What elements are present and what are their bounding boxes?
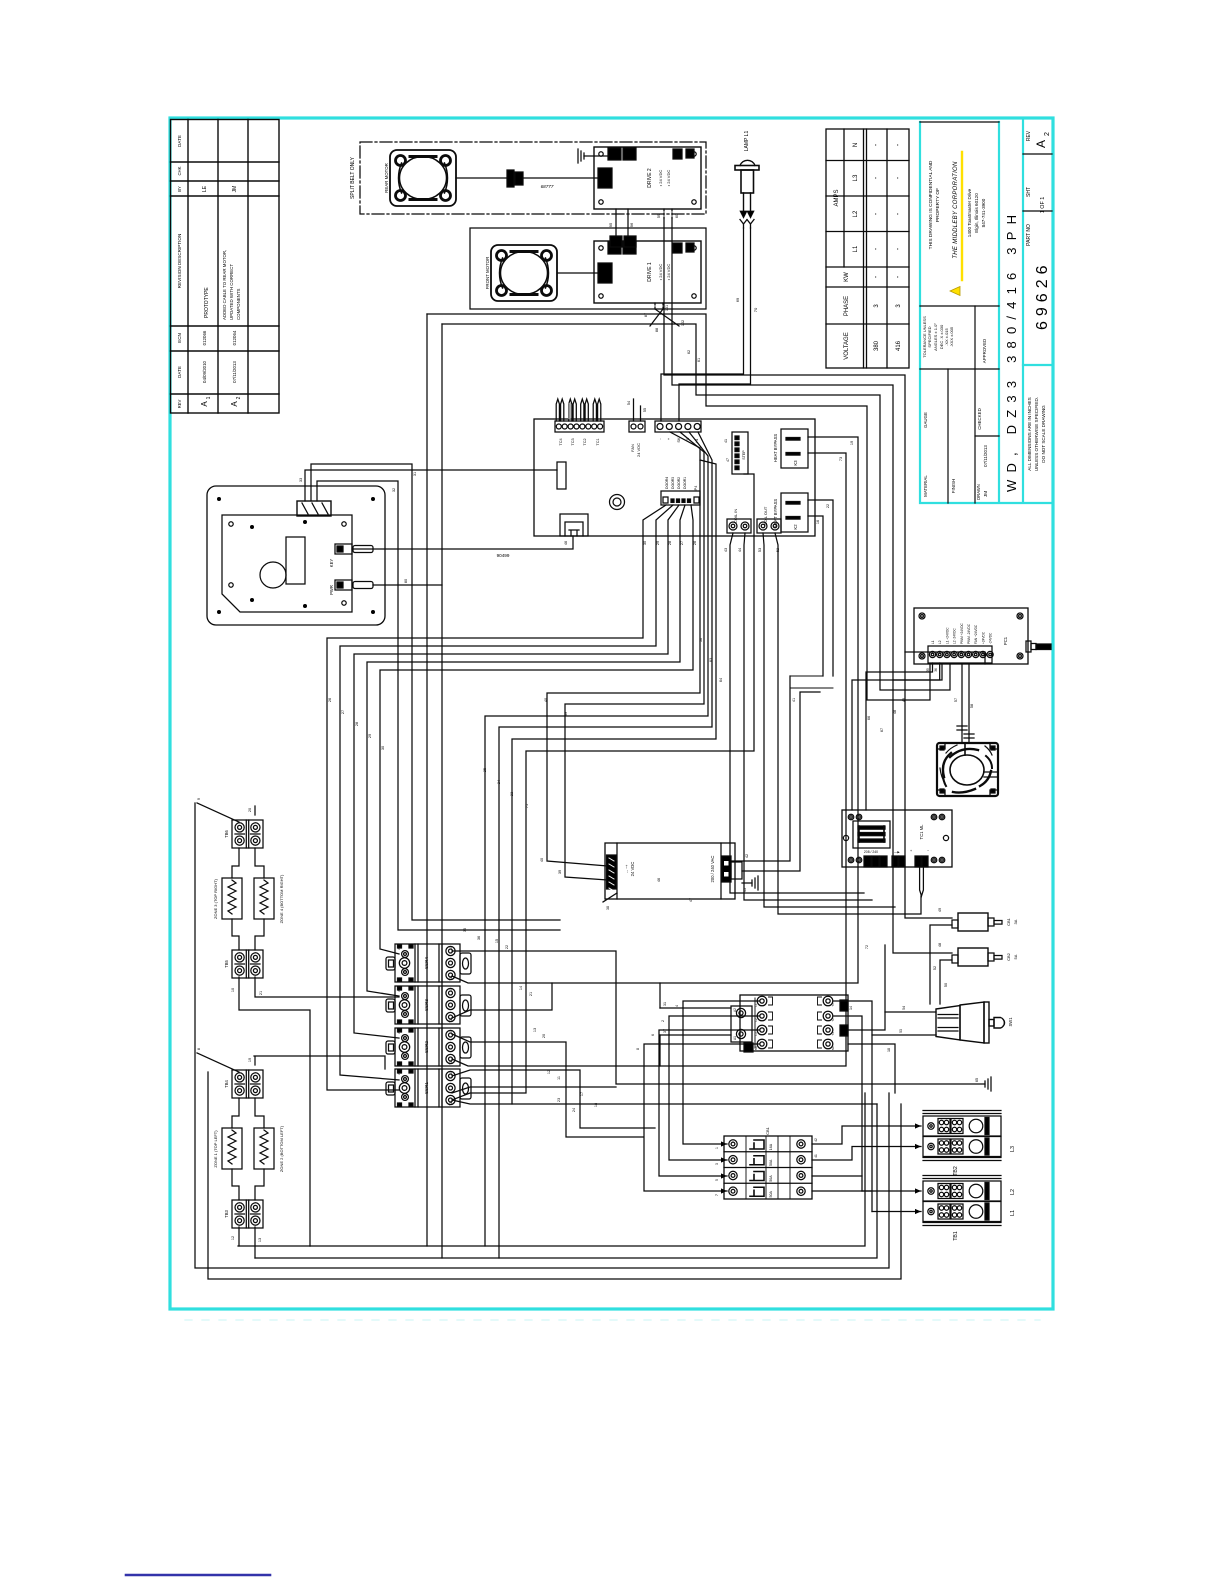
svg-text:1 OF 1: 1 OF 1 xyxy=(1040,197,1046,213)
svg-text:48: 48 xyxy=(893,710,897,714)
svg-text:PWR: PWR xyxy=(329,585,334,595)
svg-text:11: 11 xyxy=(557,1076,561,1080)
svg-text:71: 71 xyxy=(525,804,529,808)
svg-text:9: 9 xyxy=(197,798,201,800)
svg-text:65: 65 xyxy=(975,1078,979,1082)
svg-text:24: 24 xyxy=(572,1108,576,1112)
svg-text:DRIVE 1: DRIVE 1 xyxy=(647,262,653,282)
svg-text:ADDED CABLE TO REAR MOTOR,: ADDED CABLE TO REAR MOTOR, xyxy=(222,250,227,320)
svg-text:21: 21 xyxy=(259,991,263,995)
svg-text:07/11/2013: 07/11/2013 xyxy=(983,445,988,467)
svg-text:29: 29 xyxy=(368,734,372,738)
svg-text:CHECKED: CHECKED xyxy=(977,408,982,429)
svg-text:23: 23 xyxy=(510,792,514,796)
svg-text:PROPERTY OF: PROPERTY OF xyxy=(935,188,941,222)
svg-text:CB1: CB1 xyxy=(765,1126,770,1135)
drawing border frame xyxy=(170,118,1053,1309)
TB6 to heaters xyxy=(232,848,264,878)
svg-text:A1: A1 xyxy=(397,1019,401,1023)
svg-text:K2: K2 xyxy=(793,524,798,530)
svg-text:REVISION DESCRIPTION: REVISION DESCRIPTION xyxy=(177,234,182,289)
svg-text:07/11/2013: 07/11/2013 xyxy=(232,361,237,383)
svg-text:TC2: TC2 xyxy=(583,438,587,445)
svg-text:012066: 012066 xyxy=(202,330,207,345)
STEP connector xyxy=(732,432,748,474)
svg-text:50A: 50A xyxy=(769,1175,773,1182)
svg-text:43: 43 xyxy=(724,548,728,552)
svg-text:7: 7 xyxy=(715,1194,719,1196)
svg-text:PHASE: PHASE xyxy=(844,296,850,316)
svg-text:95: 95 xyxy=(608,222,613,227)
svg-text:P4: P4 xyxy=(694,486,698,491)
ground at drive 2 xyxy=(584,155,609,157)
svg-text:42: 42 xyxy=(814,1138,818,1142)
svg-text:ANGLES ± 1.0°: ANGLES ± 1.0° xyxy=(933,323,938,351)
title block xyxy=(920,118,1052,503)
drive 2 xyxy=(594,147,701,209)
svg-text:30: 30 xyxy=(643,541,647,545)
PC1 terminal jumpers xyxy=(852,663,940,810)
contactor coil wires xyxy=(660,1007,731,1009)
svg-text:+24VDC: +24VDC xyxy=(981,631,985,644)
svg-text:DRAWN: DRAWN xyxy=(976,484,981,500)
svg-text:PART NO: PART NO xyxy=(1026,224,1032,246)
svg-text:45: 45 xyxy=(743,888,747,892)
svg-text:A2: A2 xyxy=(397,1030,401,1034)
svg-text:DOOR2: DOOR2 xyxy=(677,477,681,489)
svg-text:88: 88 xyxy=(655,328,659,332)
svg-text:PROTOTYPE: PROTOTYPE xyxy=(204,287,210,318)
svg-text:TB6: TB6 xyxy=(224,829,229,837)
svg-text:24 VDC: 24 VDC xyxy=(636,443,641,457)
svg-text:24 VDC: 24 VDC xyxy=(630,862,635,877)
svg-text:A1: A1 xyxy=(397,1102,401,1106)
zone 1 heater (top left) xyxy=(222,1128,242,1169)
terminal block TB2 xyxy=(923,1111,1016,1176)
svg-text:3: 3 xyxy=(715,1163,719,1165)
svg-text:T3: T3 xyxy=(831,1032,835,1036)
TB5 out wires xyxy=(239,977,310,1246)
svg-text:WD, DZ33 380/416 3PH: WD, DZ33 380/416 3PH xyxy=(1004,208,1019,492)
svg-text:1: 1 xyxy=(206,396,212,399)
svg-text:6: 6 xyxy=(651,1034,655,1036)
breaker CB1 3A xyxy=(952,913,1002,931)
svg-text:T1: T1 xyxy=(831,1003,835,1007)
svg-text:A2: A2 xyxy=(397,988,401,992)
svg-text:L1: L1 xyxy=(449,1071,453,1075)
svg-text:3A: 3A xyxy=(1013,919,1018,924)
rear motor xyxy=(390,150,456,206)
front motor enclosure wire xyxy=(470,228,706,309)
svg-text:L1: L1 xyxy=(449,1030,453,1034)
svg-text:50A: 50A xyxy=(769,1190,773,1197)
main controller board xyxy=(534,419,815,536)
coil out terminal xyxy=(757,519,781,533)
svg-text:847-741-3900: 847-741-3900 xyxy=(981,198,986,227)
svg-text:56: 56 xyxy=(699,638,703,642)
svg-text:64: 64 xyxy=(719,678,723,682)
terminal block TB3 xyxy=(232,1200,263,1228)
svg-text:• 24 VDC: • 24 VDC xyxy=(666,170,671,187)
svg-text:44: 44 xyxy=(738,548,742,552)
svg-text:VOLTAGE: VOLTAGE xyxy=(844,332,850,359)
svg-text:35: 35 xyxy=(926,668,930,672)
svg-text:DATE: DATE xyxy=(177,135,182,147)
wires 95 96 drive2 to drive1 xyxy=(616,209,628,236)
board left connector xyxy=(557,462,566,489)
svg-text:TC1 ML: TC1 ML xyxy=(919,824,924,840)
display control unit xyxy=(207,486,385,625)
svg-text:SW1: SW1 xyxy=(1008,1017,1013,1027)
svg-text:38: 38 xyxy=(606,906,610,910)
svg-text:04/09/2010: 04/09/2010 xyxy=(202,360,207,383)
svg-text:24: 24 xyxy=(497,780,501,784)
zone12 wiring xyxy=(197,1053,239,1072)
svg-text:20: 20 xyxy=(542,1034,546,1038)
svg-text:UNLESS OTHERWISE SPECIFIED.: UNLESS OTHERWISE SPECIFIED. xyxy=(1034,397,1039,471)
svg-text:TC4: TC4 xyxy=(559,438,563,445)
svg-text:PWM -24VDC: PWM -24VDC xyxy=(967,623,971,644)
svg-text:REAR MOTOR: REAR MOTOR xyxy=(384,163,389,193)
svg-text:21: 21 xyxy=(529,992,533,996)
svg-text:10: 10 xyxy=(231,988,235,992)
svg-text:T1: T1 xyxy=(449,1019,453,1023)
svg-text:ZONE 4 (BOTTOM RIGHT): ZONE 4 (BOTTOM RIGHT) xyxy=(279,874,284,923)
svg-text:CHK: CHK xyxy=(177,166,182,175)
lamp wires 69 70 xyxy=(661,228,744,421)
svg-text:46: 46 xyxy=(657,878,661,882)
dimension note xyxy=(1027,397,1046,471)
TC1 ML thermocouple board xyxy=(842,810,952,896)
svg-text:AMPS: AMPS xyxy=(834,189,840,206)
svg-text:12: 12 xyxy=(547,1070,551,1074)
svg-text:A: A xyxy=(200,401,209,407)
svg-text:ECN: ECN xyxy=(177,333,182,343)
svg-text:FRONT MOTOR: FRONT MOTOR xyxy=(485,257,490,290)
svg-text:DOOR4: DOOR4 xyxy=(665,477,669,489)
relay K3 heat bypass xyxy=(781,429,808,468)
ssr feed staircase from left loops xyxy=(452,1034,643,1137)
svg-text:STEP: STEP xyxy=(742,450,746,460)
svg-text:HEAT BYPASS: HEAT BYPASS xyxy=(773,434,778,463)
svg-text:96: 96 xyxy=(629,222,634,227)
wire from STEP to SSR right mesh xyxy=(452,474,754,1100)
svg-text:REV: REV xyxy=(177,399,182,408)
svg-text:↔ −+: ↔ −+ xyxy=(625,865,629,874)
solid state relay SSR2 xyxy=(386,1028,471,1066)
breaker CB2 5A xyxy=(952,948,1002,966)
svg-text:L1: L1 xyxy=(449,988,453,992)
svg-text:.XXX ±.005: .XXX ±.005 xyxy=(949,326,954,347)
ps input wires 41 42 xyxy=(731,676,790,861)
svg-text:L1: L1 xyxy=(449,946,453,950)
svg-text:27: 27 xyxy=(680,541,684,545)
svg-text:67: 67 xyxy=(880,728,884,732)
svg-text:COIL OUT: COIL OUT xyxy=(763,506,768,525)
svg-text:4: 4 xyxy=(675,1005,679,1007)
svg-text:52: 52 xyxy=(776,548,780,552)
svg-text:32: 32 xyxy=(392,488,396,492)
svg-text:DOOR3: DOOR3 xyxy=(671,477,675,489)
svg-text:A2: A2 xyxy=(397,946,401,950)
svg-text:L2: L2 xyxy=(754,1018,758,1022)
svg-text:12: 12 xyxy=(231,1236,235,1240)
inter-drive connector xyxy=(610,236,622,247)
solid state relay SSR1 xyxy=(386,1069,471,1107)
svg-text:47: 47 xyxy=(726,458,730,462)
svg-text:22: 22 xyxy=(505,945,509,949)
fan terminal xyxy=(629,421,645,432)
terminal block TB5 xyxy=(232,950,263,978)
svg-text:N: N xyxy=(853,143,859,147)
svg-text:53: 53 xyxy=(758,548,762,552)
svg-text:L2: L2 xyxy=(853,210,859,217)
svg-text:L3: L3 xyxy=(754,1032,758,1036)
svg-text:380: 380 xyxy=(874,340,880,351)
K3 wires to SSR bus xyxy=(452,437,858,983)
svg-text:39: 39 xyxy=(558,870,562,874)
svg-text:22: 22 xyxy=(826,504,830,508)
revision table xyxy=(171,120,280,414)
svg-text:61: 61 xyxy=(697,358,701,362)
svg-text:KW: KW xyxy=(844,272,850,282)
contactor output wires xyxy=(834,1001,872,1212)
svg-text:DATE: DATE xyxy=(177,366,182,378)
svg-text:L3: L3 xyxy=(853,174,859,181)
svg-text:KEY: KEY xyxy=(329,559,334,568)
svg-text:ZONE 2 (BOTTOM LEFT): ZONE 2 (BOTTOM LEFT) xyxy=(279,1125,284,1172)
fan wires 54 55 xyxy=(634,399,641,421)
svg-text:L1: L1 xyxy=(931,640,935,644)
svg-text:L1: L1 xyxy=(853,245,859,252)
zone34 wiring xyxy=(197,803,239,822)
svg-text:73: 73 xyxy=(839,457,843,461)
svg-text:19: 19 xyxy=(248,1058,252,1062)
svg-text:36: 36 xyxy=(477,936,481,940)
svg-text:PWM +24VDC: PWM +24VDC xyxy=(960,622,964,644)
svg-text:72: 72 xyxy=(865,945,869,949)
svg-text:COMPONENTS: COMPONENTS xyxy=(236,288,241,320)
svg-text:36: 36 xyxy=(934,668,938,672)
svg-text:102: 102 xyxy=(681,320,685,326)
svg-text:L2 -24VDC: L2 -24VDC xyxy=(953,628,957,644)
P4 door connector xyxy=(661,491,700,505)
svg-text:BY: BY xyxy=(177,186,182,192)
PC1 power board xyxy=(914,608,1051,664)
svg-text:13: 13 xyxy=(258,1238,262,1242)
svg-text:26: 26 xyxy=(328,698,332,702)
svg-text:-24VDC: -24VDC xyxy=(989,632,993,644)
svg-text:• 24 VDC: • 24 VDC xyxy=(666,264,671,281)
svg-text:ALL DIMENSIONS ARE IN INCHES: ALL DIMENSIONS ARE IN INCHES xyxy=(1027,397,1032,470)
cb feed wires xyxy=(905,652,952,918)
svg-text:L1 +24VDC: L1 +24VDC xyxy=(945,627,949,644)
24VDC power supply xyxy=(605,843,742,899)
svg-text:66: 66 xyxy=(867,716,871,720)
svg-text:47: 47 xyxy=(689,898,693,902)
svg-text:+: + xyxy=(910,849,912,853)
terminal block TB6 xyxy=(232,820,263,848)
svg-text:SPLIT BELT ONLY: SPLIT BELT ONLY xyxy=(350,156,356,199)
svg-text:101: 101 xyxy=(665,305,669,311)
svg-text:DO NOT SCALE DRAWING: DO NOT SCALE DRAWING xyxy=(1041,405,1046,463)
svg-text:THIS DRAWING IS CONFIDENTIAL A: THIS DRAWING IS CONFIDENTIAL AND xyxy=(928,160,934,249)
drive2 output leads 59 60 xyxy=(664,209,672,218)
svg-text:L1: L1 xyxy=(1010,1210,1016,1216)
svg-text:012064: 012064 xyxy=(232,330,237,345)
svg-text:42: 42 xyxy=(745,854,749,858)
svg-text:REV: REV xyxy=(1026,130,1032,141)
power supply ground xyxy=(742,882,752,884)
relay K2 heat bypass xyxy=(781,493,808,532)
wire connector to drive 2 xyxy=(523,177,598,179)
svg-text:THE MIDDLEBY CORPORATION: THE MIDDLEBY CORPORATION xyxy=(953,161,959,259)
board mounting hole xyxy=(610,495,625,510)
voltage amps table xyxy=(826,129,909,368)
svg-text:18: 18 xyxy=(594,1103,598,1107)
svg-text:SPECIFIED: SPECIFIED xyxy=(927,326,932,347)
svg-text:58: 58 xyxy=(970,704,974,708)
svg-text:57: 57 xyxy=(954,698,958,702)
svg-text:TC3: TC3 xyxy=(571,438,575,445)
svg-text:90499: 90499 xyxy=(497,553,510,558)
solid state relay SSR3 xyxy=(386,986,471,1024)
svg-text:69626: 69626 xyxy=(1034,261,1051,331)
svg-text:8: 8 xyxy=(636,1048,640,1050)
breaker CB1 4-pole xyxy=(724,1126,812,1199)
svg-text:2: 2 xyxy=(1044,132,1051,136)
wire loop drive area to PC1 (outer) xyxy=(427,314,930,700)
svg-text:—▶: —▶ xyxy=(894,850,900,854)
svg-text:80: 80 xyxy=(404,579,408,583)
svg-text:T1: T1 xyxy=(449,977,453,981)
svg-text:40: 40 xyxy=(544,698,548,702)
split belt only enclosure xyxy=(360,142,706,214)
svg-text:25: 25 xyxy=(483,768,487,772)
thermocouple probe xyxy=(920,867,924,896)
contactor feed wires to CB1 xyxy=(683,1001,759,1144)
svg-text:41: 41 xyxy=(792,698,796,702)
svg-text:59: 59 xyxy=(657,214,661,218)
long verticals x427 x442 xyxy=(426,314,428,1246)
svg-text:49: 49 xyxy=(938,908,942,912)
svg-text:APPROVED: APPROVED xyxy=(982,339,987,363)
svg-text:CB1: CB1 xyxy=(1006,917,1011,926)
svg-text:2: 2 xyxy=(661,1020,665,1022)
svg-text:T1: T1 xyxy=(449,1102,453,1106)
solid state relay SSR4 xyxy=(386,944,471,982)
svg-text:19: 19 xyxy=(850,441,854,445)
svg-text:50A: 50A xyxy=(769,1159,773,1166)
zone 4 heater (bottom right) xyxy=(254,878,274,919)
svg-text:41: 41 xyxy=(814,1154,818,1158)
svg-text:208 / 240: 208 / 240 xyxy=(864,850,878,854)
terminal block TB4 xyxy=(232,1070,263,1098)
display top connector xyxy=(297,501,331,516)
svg-text:46: 46 xyxy=(564,541,568,545)
wire loop 4 xyxy=(672,218,942,680)
misc wire number labels xyxy=(463,638,906,1107)
board terminals xyxy=(864,856,871,867)
sw1 wires xyxy=(885,1011,936,1013)
svg-text:DRIVE 2: DRIVE 2 xyxy=(647,168,653,188)
svg-text:8: 8 xyxy=(197,1048,201,1050)
svg-text:62: 62 xyxy=(687,350,691,354)
svg-text:52: 52 xyxy=(933,966,937,970)
svg-text:DOOR1: DOOR1 xyxy=(683,477,687,489)
svg-text:39: 39 xyxy=(564,712,568,716)
svg-text:54: 54 xyxy=(627,401,631,405)
wires 26-30 board to SSR controls xyxy=(327,505,666,1090)
svg-text:31: 31 xyxy=(413,472,417,476)
footer blue line xyxy=(126,1574,270,1577)
svg-text:17: 17 xyxy=(580,1092,584,1096)
svg-text:20: 20 xyxy=(248,808,252,812)
svg-text:A2: A2 xyxy=(733,1008,737,1012)
motor cable connector xyxy=(507,170,514,187)
svg-text:1: 1 xyxy=(715,1147,719,1149)
svg-text:L3: L3 xyxy=(1010,1146,1016,1152)
zone 3 heater (top right) xyxy=(222,878,242,919)
svg-text:53: 53 xyxy=(899,1029,903,1033)
svg-text:15: 15 xyxy=(495,939,499,943)
wire bundle to power supply and lower left xyxy=(547,432,700,866)
svg-text:L2: L2 xyxy=(938,640,942,644)
svg-text:TB5: TB5 xyxy=(224,959,229,967)
svg-text:63: 63 xyxy=(709,658,713,662)
svg-text:14: 14 xyxy=(849,1006,853,1010)
svg-text:416: 416 xyxy=(896,340,902,351)
svg-text:MATERIAL: MATERIAL xyxy=(923,475,928,497)
key/pwr connectors xyxy=(335,544,352,554)
svg-text:ZONE 3 (TOP RIGHT): ZONE 3 (TOP RIGHT) xyxy=(213,878,218,919)
wire loop 3 (drive2 24vdc) xyxy=(664,218,985,664)
svg-text:60: 60 xyxy=(675,214,679,218)
svg-text:K3: K3 xyxy=(793,460,798,466)
svg-text:54: 54 xyxy=(902,1006,906,1010)
svg-text:16A: 16A xyxy=(769,1143,773,1150)
transformer xyxy=(853,821,890,848)
svg-text:30: 30 xyxy=(381,746,385,750)
svg-text:A1: A1 xyxy=(733,1036,737,1040)
svg-text:TB1: TB1 xyxy=(953,1231,959,1241)
drive 1 xyxy=(594,241,701,303)
svg-text:A1: A1 xyxy=(397,1061,401,1065)
svg-text:5A: 5A xyxy=(1013,954,1018,959)
wire front motor to drive 1 xyxy=(558,272,598,274)
terminal block TB1 xyxy=(923,1176,1016,1241)
svg-text:GAUGE: GAUGE xyxy=(923,412,928,428)
svg-text:69: 69 xyxy=(735,297,740,302)
drive comm terminal strip xyxy=(655,421,701,432)
svg-text:28: 28 xyxy=(355,722,359,726)
svg-text:Elgin, Illinois 60120: Elgin, Illinois 60120 xyxy=(974,193,979,233)
thermocouple strip xyxy=(555,421,604,432)
svg-text:68777: 68777 xyxy=(541,184,554,189)
svg-text:28: 28 xyxy=(668,541,672,545)
svg-text:TB4: TB4 xyxy=(224,1079,229,1087)
svg-text:37: 37 xyxy=(663,1029,667,1033)
svg-text:JM: JM xyxy=(983,491,988,497)
svg-text:5: 5 xyxy=(715,1179,719,1181)
svg-text:LE: LE xyxy=(202,185,208,192)
fan wires 57 58 xyxy=(962,664,969,743)
svg-text:• 24 VDC: • 24 VDC xyxy=(658,170,663,187)
svg-text:FAN: FAN xyxy=(630,444,635,452)
svg-text:31: 31 xyxy=(663,1002,667,1006)
coil in/out wires 43 44 52 53 xyxy=(730,533,864,893)
svg-text:14: 14 xyxy=(519,986,523,990)
